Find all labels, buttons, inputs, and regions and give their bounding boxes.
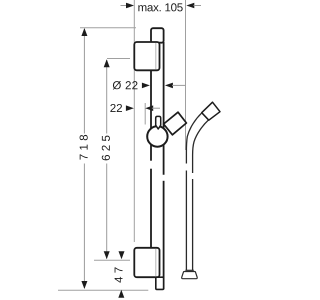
rail right edge lower segment <box>163 181 165 289</box>
bottom wall bracket <box>134 248 159 277</box>
dimension max.105 left arrow <box>126 3 134 9</box>
hose end joint line <box>185 269 193 271</box>
dimension 718 bottom arrow <box>81 281 87 289</box>
extension line 22 right reference <box>144 103 146 125</box>
dimension text max. 105 <box>138 3 182 11</box>
dimension 718 shaft upper <box>83 29 85 134</box>
extension line rail bottom (718/47) <box>58 289 148 291</box>
dimension 47 top arrow <box>119 251 125 259</box>
dimension text 625 (rotated) <box>102 136 110 161</box>
top bracket inner rail line <box>155 43 157 70</box>
dimension Ø22 right tail <box>172 84 186 86</box>
extension line right (vertical, from max.105 right) <box>185 0 187 150</box>
dimension 47 bottom arrow <box>118 290 124 298</box>
dimension 625 top arrow <box>104 59 110 67</box>
rail left edge upper segment <box>150 42 152 161</box>
dimension 718 shaft lower <box>83 164 85 289</box>
dimension 625 shaft upper <box>106 60 108 134</box>
rail top cap <box>151 28 164 43</box>
dimension max.105 right arrow <box>186 3 194 9</box>
slider body (circle) <box>147 126 167 146</box>
dimension text 718 (rotated) <box>80 135 88 160</box>
dimension 22 left arrow <box>126 105 134 111</box>
extension line bracket bottom (625/47) <box>94 259 130 261</box>
dimension 22 right arrow <box>145 105 153 111</box>
hose outer line lower <box>185 171 187 271</box>
rail bottom end piece <box>156 277 164 289</box>
dimension 625 shaft lower <box>106 164 108 259</box>
rail left edge lower segment <box>150 169 152 248</box>
top wall bracket <box>134 42 159 70</box>
hose outer line upper <box>186 113 201 163</box>
hose inner line lower <box>192 179 194 270</box>
dimension text 47 (rotated) <box>115 267 123 282</box>
slider knob with pointed tip <box>156 116 161 129</box>
dimension 625 bottom arrow <box>104 251 110 259</box>
bottom bracket inner rail line <box>155 249 157 277</box>
dimension Ø22 left arrow <box>142 83 150 89</box>
hose connector (rotated square) <box>202 102 220 120</box>
hose inner line upper <box>193 120 209 173</box>
extension line 625 top <box>107 58 130 60</box>
dimension 22 right tail <box>151 107 160 109</box>
dimension max.105 left tail <box>121 5 128 7</box>
dimension max.105 right tail <box>194 5 202 7</box>
dimension text 22 <box>110 104 122 112</box>
holder arm (rotated rect) <box>164 112 187 135</box>
dimension 718 top arrow <box>81 28 87 36</box>
rail right edge upper segment <box>163 42 165 175</box>
extension line 718 top <box>80 27 136 29</box>
dimension Ø22 right arrow <box>165 83 173 89</box>
dimension text Ø 22 <box>113 81 138 90</box>
hose end cone <box>182 272 198 279</box>
extension line wall plane (vertical, from max.105 left) <box>133 0 135 242</box>
